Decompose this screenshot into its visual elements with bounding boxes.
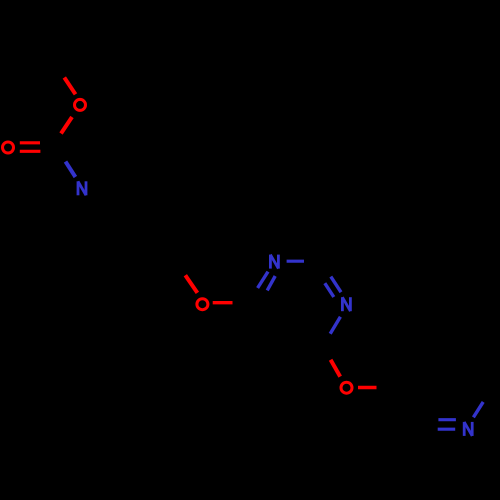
wire double bond C2'=N4 inner half (blue) xyxy=(438,418,456,421)
wire bond O3-C6pyrimidine half (red) xyxy=(213,301,233,304)
wire double bond N2=C6 outer half (blue) xyxy=(258,272,268,288)
wire double bond C=O2 lower line (red) xyxy=(20,150,41,153)
wire bond C-N half (blue) xyxy=(66,162,76,177)
node N2 pyrimidine N1 label xyxy=(270,255,278,269)
node N1 carbamate nitrogen label xyxy=(78,181,86,195)
wire double bond C2'=N4 outer half (blue) xyxy=(438,428,456,431)
node O1 ester oxygen label xyxy=(75,99,86,110)
wire bond CH3-O half (red) xyxy=(64,78,75,95)
wire bond N3-C4 half (blue) xyxy=(330,317,340,334)
wire double bond C2=N3 inner half (blue) xyxy=(325,283,334,297)
wire bond chainC-O3 half (red) xyxy=(185,275,197,293)
wire bond N2-C2 half horizontal (blue) xyxy=(287,260,304,263)
wire bond O4-C3pyridine half (red) xyxy=(358,386,377,389)
wire double bond C=O2 upper line (red) xyxy=(20,141,40,144)
wire bond O1-C half (red) xyxy=(61,117,72,134)
wire double bond C2=N3 outer half (blue) xyxy=(331,277,341,293)
node N3 pyrimidine N3 label xyxy=(342,297,350,311)
node O3 ether oxygen label xyxy=(197,299,208,310)
wire double bond N2=C6 inner half (blue) xyxy=(267,276,275,290)
wire bond C4-O4 half (red) xyxy=(331,360,341,377)
node O2 carbonyl oxygen label xyxy=(3,142,14,153)
wire bond N4-C6' half (blue) xyxy=(473,402,483,417)
node N4 pyridine nitrogen label xyxy=(464,422,472,436)
node O4 aryl ether oxygen label xyxy=(341,382,352,393)
